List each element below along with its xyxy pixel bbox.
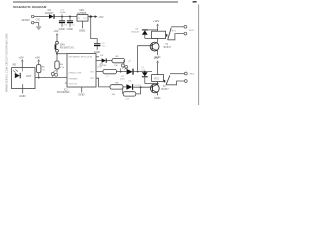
connector CN3 pin1 — [184, 72, 187, 75]
node +5V output — [90, 15, 92, 17]
svg-text:OUT: OUT — [83, 18, 88, 20]
label T1 — [164, 43, 172, 49]
IC1 left pin label OPERATE — [68, 77, 78, 80]
wire T2 emitter ground — [157, 93, 159, 96]
wire D6 to T2 base — [133, 86, 152, 88]
IC1 right pin label DP2 — [90, 78, 95, 80]
resistor R6 — [103, 69, 117, 73]
svg-text:10k: 10k — [114, 65, 118, 67]
label 1N4148 for D3 — [99, 65, 107, 67]
wire CN1 pin1 to D1 — [34, 16, 49, 18]
svg-text:+5V: +5V — [53, 29, 58, 33]
relay RY1 coil box — [152, 31, 168, 38]
svg-text:1k: 1k — [106, 76, 108, 78]
capacitor C3 label — [102, 43, 106, 48]
label 12VDC — [21, 18, 30, 22]
svg-text:D2: D2 — [136, 29, 140, 31]
wire R5 to jumper — [123, 61, 126, 64]
ground C3 — [94, 50, 100, 54]
photodiode inside IR1 — [13, 70, 20, 79]
jumper JP1 — [121, 59, 133, 71]
capacitor C1 — [59, 17, 65, 27]
label 1N4148 D6 — [134, 85, 141, 87]
IC1 right pin label DP1 — [90, 72, 95, 74]
diode D1 label — [45, 9, 54, 15]
svg-text:100R: 100R — [97, 66, 103, 68]
transistor T2 — [150, 84, 159, 93]
supply +5V arrow for R3 — [35, 55, 40, 64]
IC1 right stub VDD — [96, 56, 99, 58]
wire IC1 pin to R6 — [96, 71, 103, 73]
left margin vertical note — [5, 33, 9, 92]
supply +12V arrow relay1 — [153, 19, 160, 31]
svg-text:10u: 10u — [102, 46, 106, 48]
regulator VR1 box — [77, 15, 88, 22]
svg-text:+5V: +5V — [98, 15, 103, 19]
svg-text:R8: R8 — [116, 83, 120, 85]
label OUT — [26, 74, 32, 78]
svg-text:IR1: IR1 — [13, 63, 17, 66]
diode D1 — [49, 14, 54, 19]
diode D6 — [126, 84, 132, 90]
supply +5V arrow for SW1 — [53, 29, 58, 41]
label R6 — [97, 64, 104, 69]
IR1 vcc stub — [21, 68, 23, 72]
svg-text:GND: GND — [59, 27, 65, 31]
svg-text:BC547: BC547 — [161, 88, 169, 91]
wire IC1 pin DP2 jog — [96, 78, 110, 87]
wire T1 collector to relay1 — [157, 38, 159, 42]
connector CN3 pin2 — [184, 80, 187, 83]
page header rule — [13, 1, 178, 3]
resistor R4 — [55, 61, 59, 69]
svg-text:4148: 4148 — [120, 79, 125, 81]
connector CN2 pin2 — [184, 32, 187, 35]
svg-text:GND: GND — [67, 27, 73, 31]
svg-text:1N4007: 1N4007 — [45, 12, 54, 15]
svg-text:10k: 10k — [112, 94, 116, 96]
IC1 top pin labels — [69, 57, 93, 59]
svg-text:OUT: OUT — [26, 74, 32, 78]
svg-text:GND: GND — [78, 92, 84, 96]
svg-text:PB SWITCH 1: PB SWITCH 1 — [60, 48, 75, 50]
label R5 — [114, 56, 119, 67]
svg-text:PIC16F84A: PIC16F84A — [57, 91, 70, 94]
wire D5 to relay2 rail — [134, 71, 152, 73]
wire D4 to relay2 bottom rail — [145, 83, 158, 85]
regulator VR1 label — [77, 9, 87, 15]
label IR1 — [13, 63, 17, 66]
connector CN2 pin1 — [184, 25, 187, 28]
svg-text:IN: IN — [78, 18, 81, 20]
wire T1 emitter to ground — [157, 51, 159, 55]
capacitor C2 — [67, 17, 73, 27]
svg-text:+5V: +5V — [35, 55, 40, 59]
transistor T1 — [150, 42, 159, 51]
IC1 ground stem — [81, 87, 83, 92]
svg-text:GND: GND — [79, 28, 85, 32]
svg-text:1000u: 1000u — [60, 12, 67, 14]
wire R8 to D6 — [123, 86, 126, 88]
resistor R5 — [112, 58, 125, 62]
capacitor C3 — [94, 44, 100, 50]
ground C1 — [59, 27, 65, 31]
capacitor C1 label — [60, 9, 67, 16]
svg-text:BC547: BC547 — [164, 46, 172, 49]
svg-text:+5V: +5V — [153, 56, 158, 60]
svg-text:RY2: RY2 — [155, 79, 160, 81]
diode D4 — [142, 72, 148, 83]
svg-text:GND: GND — [154, 96, 160, 100]
wire IR1 OUT to IC1 — [35, 77, 67, 79]
svg-text:+12V: +12V — [153, 19, 160, 23]
resistor R8 — [110, 85, 123, 89]
diode D2 — [142, 30, 148, 39]
svg-text:R3: R3 — [42, 66, 46, 68]
svg-text:DP2: DP2 — [90, 78, 95, 80]
IC1 microcontroller box — [67, 54, 96, 87]
ground C2 — [67, 27, 73, 31]
pushbutton SW1 — [55, 41, 59, 52]
svg-text:+5V: +5V — [19, 55, 24, 59]
svg-text:D6: D6 — [129, 80, 133, 82]
relay RY2 contact — [166, 75, 170, 84]
svg-text:JP1: JP1 — [128, 59, 133, 63]
label D3 — [100, 55, 104, 57]
connector CN1 pin 1 — [31, 15, 34, 18]
svg-text:4.7k: 4.7k — [125, 99, 130, 101]
svg-text:OPERATE: OPERATE — [68, 77, 78, 80]
label 230V relay2 — [189, 73, 195, 75]
svg-text:R4: R4 — [60, 64, 64, 66]
label R3 — [42, 66, 46, 71]
svg-text:D5: D5 — [121, 76, 125, 78]
label D6 — [129, 80, 133, 82]
label T2 — [161, 85, 169, 91]
svg-text:CN1: CN1 — [36, 18, 41, 21]
ground T1 — [154, 55, 160, 59]
label D5 — [120, 66, 127, 80]
ground IC1 — [78, 92, 84, 96]
wire contact to CN2 pin1 — [171, 26, 184, 28]
ground IR1 — [19, 94, 25, 98]
wire D2 to relay1 bottom — [145, 37, 158, 39]
svg-text:230V: 230V — [189, 73, 195, 75]
label +5V out — [98, 15, 103, 19]
capacitor C2 value — [71, 25, 75, 27]
svg-text:WWW.SEEKIC.COM CIRCUIT DIAGRAM: WWW.SEEKIC.COM CIRCUIT DIAGRAMS 2008 — [5, 33, 9, 92]
ground T2 — [154, 96, 160, 100]
svg-text:DP1: DP1 — [90, 72, 95, 74]
IC1 left pin label OPEN — [68, 72, 82, 74]
label 230V — [189, 30, 195, 32]
label CN1 — [36, 18, 41, 21]
wire main rail to regulator — [55, 16, 78, 18]
wire CN1 pin2 to ground — [34, 23, 39, 27]
label R4 — [60, 64, 65, 69]
wire contact NO to CN3 pin2 — [166, 81, 184, 85]
label R6 value — [106, 76, 108, 78]
supply +5V arrow for IR1 — [19, 55, 24, 67]
wire relay2 bottom to T2 collector — [157, 81, 159, 84]
jumper J2 circles — [51, 70, 57, 77]
wire SW1 to IC1 — [56, 52, 67, 61]
label D4 — [141, 67, 146, 71]
wire +5V down to C3 — [91, 17, 98, 44]
relay RY2 coil box — [152, 75, 166, 83]
svg-text:R5: R5 — [116, 56, 120, 58]
arrow +5V — [95, 15, 98, 18]
wire VR1 output — [88, 16, 95, 18]
page number dash top right — [193, 1, 197, 3]
wire relay1 top rail to D2 — [145, 29, 158, 31]
svg-text:10k: 10k — [42, 69, 46, 71]
connector CN1 pin 2 — [31, 21, 34, 24]
diode D3 — [102, 58, 112, 62]
label R9 value — [125, 99, 130, 101]
node C2 junction — [69, 16, 71, 18]
capacitor C1 value — [63, 25, 67, 27]
node R6 D5 — [117, 71, 127, 73]
supply +5V arrow relay2 — [153, 56, 159, 75]
relay RY1 contact — [168, 28, 172, 40]
svg-text:4.7k: 4.7k — [60, 67, 65, 69]
wire VR1 ground — [82, 21, 84, 28]
page right border — [198, 5, 200, 106]
wire contact to CN3 pin1 — [170, 73, 184, 75]
svg-text:RY1: RY1 — [172, 31, 177, 33]
wire contact NO to CN2 pin2 — [168, 34, 184, 40]
IC1 part label — [57, 88, 70, 94]
wire IC1 pin to D3 — [96, 60, 102, 62]
IR1 bottom stub — [22, 84, 24, 93]
svg-text:230V: 230V — [189, 30, 195, 32]
label D2 — [131, 29, 139, 34]
wire R3 to OUT wire — [38, 73, 40, 79]
svg-text:DIP SW/ESC KEY/CLK IN: DIP SW/ESC KEY/CLK IN — [69, 57, 93, 59]
IC1 left pin stub — [65, 83, 78, 86]
svg-text:12VDC: 12VDC — [21, 18, 30, 22]
svg-text:SW1: SW1 — [60, 45, 66, 47]
svg-text:SCHEMATIC DIAGRAM: SCHEMATIC DIAGRAM — [13, 5, 47, 9]
svg-text:GND/VSS: GND/VSS — [68, 84, 77, 86]
ground input triangle — [36, 27, 41, 30]
label R8 — [112, 83, 120, 96]
ground VR1 — [79, 28, 85, 32]
label RY1 — [172, 31, 177, 33]
wire riser to T1 base — [138, 46, 153, 72]
resistor R3 — [37, 65, 41, 73]
svg-text:OPEN/CLOSE: OPEN/CLOSE — [68, 72, 82, 74]
node C1 junction — [61, 16, 63, 18]
svg-text:1N4148: 1N4148 — [131, 32, 139, 34]
IR receiver module box — [12, 68, 35, 89]
label SW1 — [60, 45, 75, 50]
svg-text:D3: D3 — [100, 55, 104, 57]
svg-text:GND: GND — [19, 94, 25, 98]
title SCHEMATIC DIAGRAM — [13, 5, 47, 9]
diode D5 — [127, 69, 133, 75]
resistor R9 parallel — [123, 87, 141, 96]
wire R4 down — [56, 69, 58, 73]
